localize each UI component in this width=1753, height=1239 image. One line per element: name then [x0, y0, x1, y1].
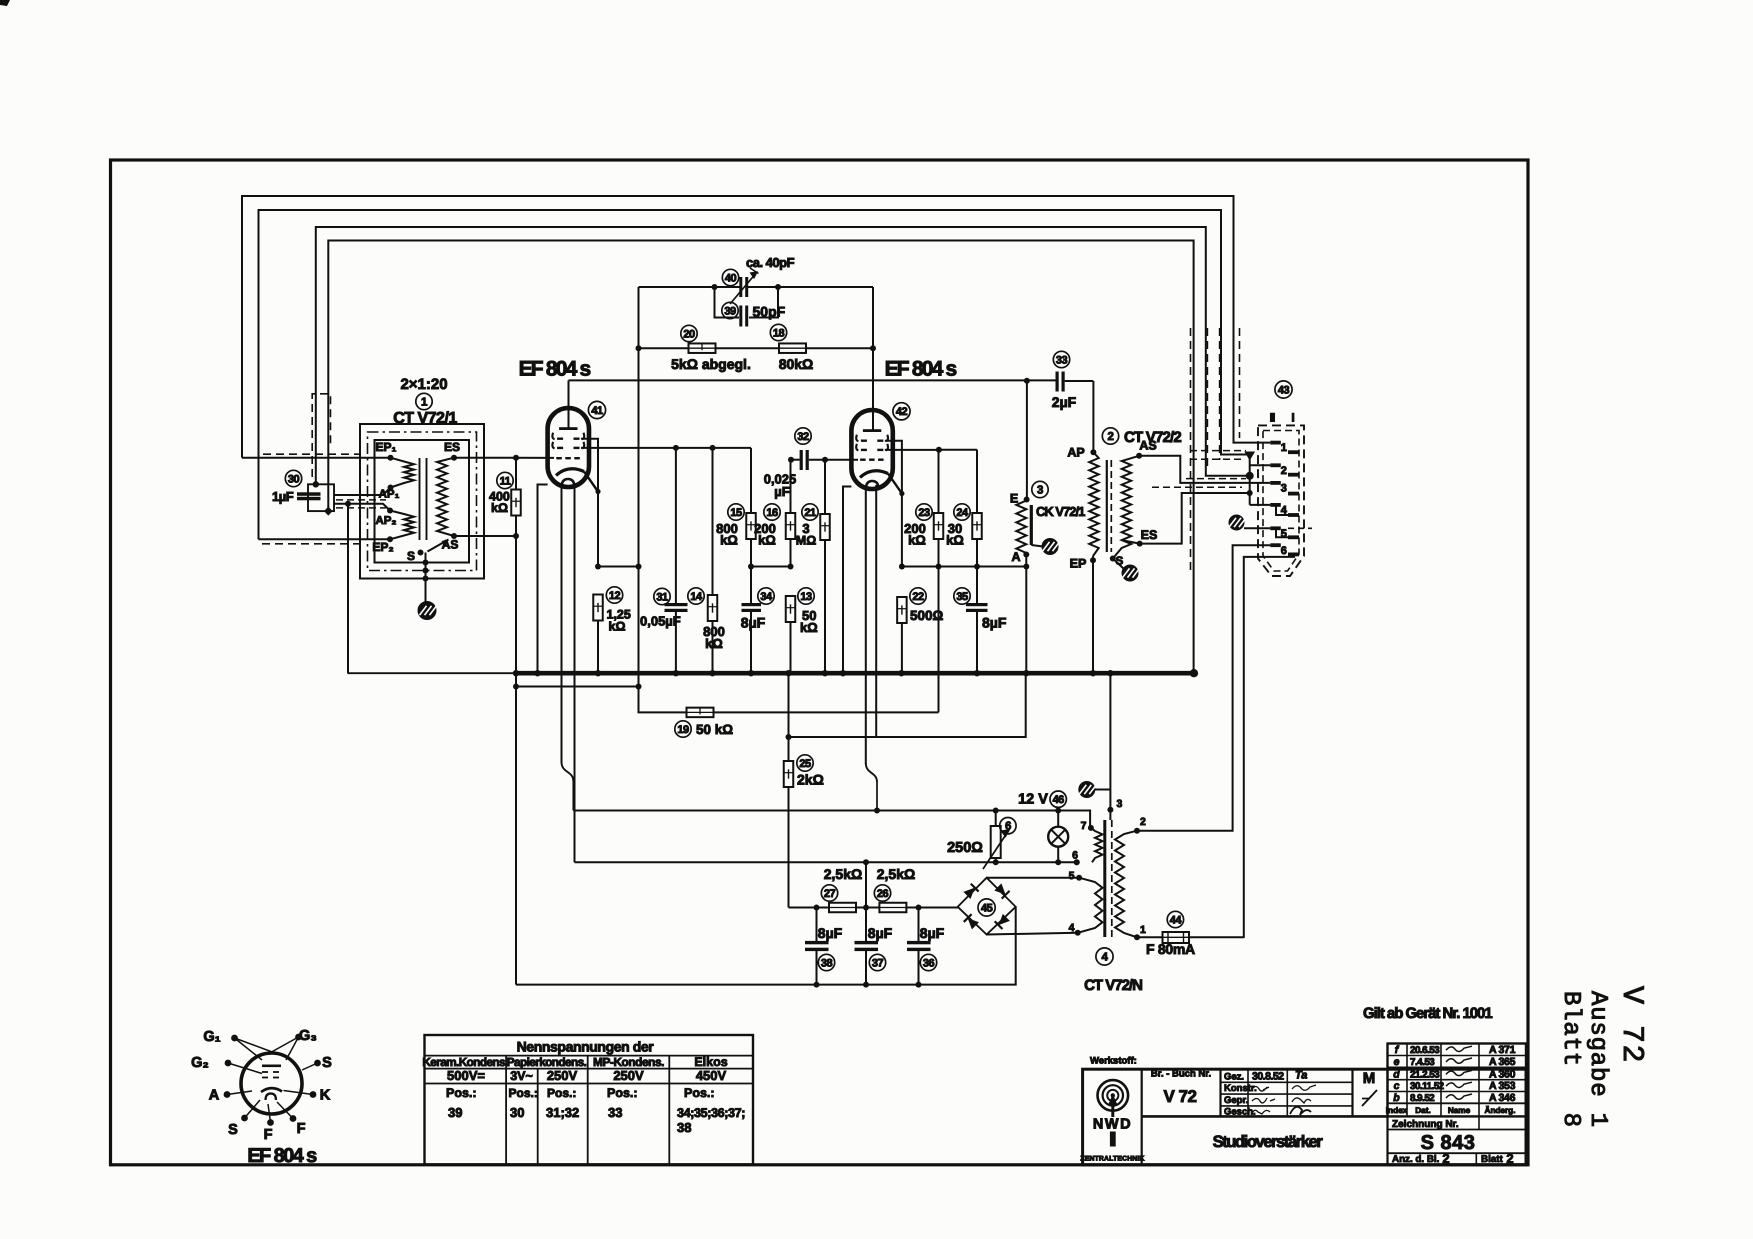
connector pin 6 contact bars: [1270, 543, 1299, 556]
wire trafo1 to fuse: [1137, 936, 1163, 938]
svg-text:kΩ: kΩ: [720, 533, 738, 548]
svg-text:kΩ: kΩ: [800, 620, 818, 635]
node A: [1023, 552, 1029, 558]
wire fuse to pin6 side: [1244, 557, 1295, 938]
label R26: [874, 866, 915, 901]
svg-text:21.2.53: 21.2.53: [1410, 1069, 1440, 1080]
label R21: [796, 504, 818, 548]
node EP2: [387, 536, 393, 542]
label pin number 2: [1281, 465, 1287, 477]
tube V1 cathode arc: [556, 469, 598, 492]
diode bridge bottom-right: [995, 914, 1010, 929]
wire EP1 input: [242, 457, 391, 459]
label A: [1011, 550, 1020, 564]
connector X1 outer dashed outline: [1258, 425, 1304, 576]
ground symbol connector: [1229, 515, 1246, 530]
capacitor C31 0.05uF: [665, 603, 688, 612]
node bus junction x1110.4: [1107, 670, 1113, 676]
rectifier bridge V45 diamond: [958, 878, 1016, 935]
wire link row 2: [751, 566, 791, 568]
svg-text:30.11.52: 30.11.52: [1410, 1081, 1445, 1092]
node row right choke: [1023, 564, 1029, 570]
node heater V2 join: [874, 808, 880, 814]
svg-text:25: 25: [799, 758, 811, 770]
label C37: [868, 925, 893, 971]
node V2 cathode join: [899, 491, 904, 496]
shield dashes around AP wires: [336, 500, 386, 508]
svg-text:EP₁: EP₁: [376, 440, 397, 454]
resistor R14 800k: [708, 595, 718, 621]
wire left return vertical: [515, 673, 517, 984]
wire C35 bottom: [976, 611, 978, 674]
title gez cell lines: [1221, 1069, 1353, 1116]
label C39: [722, 302, 786, 319]
choke core bar: [1030, 505, 1033, 545]
label zeichnung nr: [1392, 1119, 1459, 1130]
wire feedback node to V2 anode: [872, 287, 874, 430]
transformer T2 core: [1107, 460, 1112, 552]
resistor R24 30k: [972, 513, 982, 539]
svg-text:1µF: 1µF: [272, 489, 294, 504]
tube V1 heater leads: [562, 483, 575, 862]
capacitor C33 2uF plates: [1056, 372, 1065, 392]
svg-text:kΩ: kΩ: [758, 533, 776, 548]
svg-text:S: S: [228, 1122, 238, 1138]
svg-text:250V: 250V: [613, 1068, 644, 1083]
shield dashes at pin3 wire: [1152, 479, 1246, 488]
table pos values: [448, 1105, 745, 1135]
svg-text:K: K: [320, 1088, 331, 1104]
svg-text:M: M: [1363, 1070, 1376, 1087]
node return C38: [814, 982, 820, 988]
node ES out: [1137, 541, 1143, 547]
svg-text:5kΩ abgegl.: 5kΩ abgegl.: [671, 356, 751, 372]
connector X1 inner dashed outline: [1263, 431, 1299, 572]
svg-text:38: 38: [821, 957, 833, 969]
node bus junction x843: [840, 670, 846, 676]
wire EP to bus: [1092, 556, 1094, 673]
wire trafo pin3 from bus: [1109, 673, 1111, 820]
svg-text:12 V: 12 V: [1018, 792, 1048, 808]
capacitor C30 label: [272, 470, 302, 504]
svg-text:A 365: A 365: [1489, 1056, 1516, 1068]
resistor R11 400k: [511, 490, 521, 516]
label R12: [606, 587, 631, 634]
node heater ground branch: [786, 734, 792, 740]
table header line: [425, 1055, 754, 1057]
svg-text:15: 15: [730, 507, 742, 519]
resistor R21 3M: [820, 514, 830, 540]
label V72: [1164, 1087, 1197, 1106]
svg-text:8µF: 8µF: [920, 925, 945, 941]
tube V2 cathode arc: [860, 471, 902, 494]
node V1 cathode join: [595, 489, 600, 494]
wire C32 left: [791, 459, 800, 461]
resistor R13 50k: [786, 596, 796, 622]
winding TN heater upper 7-6: [1091, 828, 1103, 862]
svg-text:30: 30: [288, 473, 300, 485]
node bus junction x788.5: [785, 670, 791, 676]
node S out: [1110, 556, 1116, 562]
label EF 804 s second stage: [885, 358, 957, 381]
label pin number 6: [1281, 545, 1287, 557]
sidebar text V 72: [1614, 986, 1648, 1064]
capacitor C38 8uF: [805, 941, 829, 951]
node S shield junction 1: [423, 560, 429, 566]
node input box top: [313, 481, 319, 487]
wire V2 cathode down: [901, 448, 903, 567]
node E: [1024, 497, 1030, 503]
revision row b: [1393, 1092, 1515, 1104]
label pin number 5: [1281, 528, 1287, 540]
svg-text:Papierkondens.: Papierkondens.: [507, 1055, 587, 1069]
svg-text:26: 26: [877, 888, 889, 900]
label C35: [954, 588, 1007, 631]
svg-text:3V~: 3V~: [510, 1069, 533, 1083]
svg-text:13: 13: [800, 591, 812, 603]
wire V2 suppressor to bus: [843, 487, 851, 674]
wire S to ground: [425, 553, 427, 602]
revision table rows: [1388, 1056, 1527, 1104]
svg-text:A: A: [1011, 550, 1020, 564]
table col header 4: [694, 1055, 727, 1069]
svg-text:kΩ: kΩ: [609, 620, 626, 634]
label br buch nr: [1151, 1069, 1211, 1080]
wire bridge top to trafo 5: [987, 877, 1080, 879]
wire C37 column: [865, 862, 867, 984]
node heater return lamp: [1055, 859, 1061, 865]
label bridge 45: [978, 899, 995, 916]
wire R23 feedback down: [938, 567, 940, 713]
tube V2 anode lead: [872, 348, 874, 429]
svg-text:42: 42: [896, 406, 908, 418]
label AP out: [1067, 446, 1084, 460]
label R14: [688, 588, 725, 651]
svg-text:1: 1: [1140, 924, 1146, 936]
svg-text:S: S: [407, 549, 415, 563]
svg-text:Gepr.: Gepr.: [1224, 1095, 1248, 1106]
svg-text:34;35;36;37;: 34;35;36;37;: [677, 1106, 745, 1120]
node bus junction x712.5: [709, 670, 715, 676]
svg-text:kΩ: kΩ: [705, 636, 723, 651]
svg-text:21: 21: [804, 507, 816, 519]
socket heater arc: [266, 1094, 277, 1101]
svg-text:16: 16: [766, 507, 778, 519]
svg-text:6: 6: [1005, 821, 1011, 833]
label anz d bl: [1392, 1151, 1514, 1166]
capacitor C37 8uF: [855, 941, 879, 951]
wire feedback to R19: [639, 567, 687, 713]
resistor R26 2.5k: [879, 903, 906, 913]
label E: [1010, 492, 1018, 506]
wire V1 suppressor to bus: [538, 485, 548, 674]
resistor R27 2.5k: [829, 903, 856, 913]
sidebar text Ausgabe 1: [1584, 991, 1611, 1128]
socket pin A: [224, 1091, 231, 1098]
resistor R15 800k: [746, 513, 756, 539]
node heater return cap column: [863, 859, 869, 865]
wire screen feedback vertical: [638, 348, 640, 566]
ground symbol T1: [418, 602, 437, 620]
node bus junction x825: [822, 670, 828, 676]
label R19: [675, 721, 733, 737]
transformer T1 reference 1: [416, 393, 432, 409]
label M: [1363, 1070, 1376, 1087]
socket anode bar: [262, 1065, 281, 1068]
resistor R12 1.25k cathode V1: [593, 595, 603, 621]
wire lamp bottom: [1057, 847, 1059, 863]
node bus junction x977: [974, 670, 980, 676]
wire ES to pin4 node: [1140, 493, 1248, 544]
svg-text:2: 2: [1281, 465, 1287, 477]
svg-text:AP₂: AP₂: [375, 515, 396, 527]
svg-text:Elkos: Elkos: [694, 1055, 727, 1069]
wire choke feed: [1026, 381, 1028, 500]
wire feedback left drop: [638, 287, 640, 348]
drawing border frame: [111, 160, 1529, 1165]
wire AP2 from connector: [334, 504, 390, 511]
node bus end: [1190, 669, 1198, 677]
table voltages: [447, 1068, 726, 1083]
wire B+ branch down: [788, 673, 790, 761]
svg-text:Gesch.: Gesch.: [1224, 1107, 1256, 1118]
wire R14 top: [712, 448, 714, 595]
svg-text:µF: µF: [774, 484, 789, 499]
wire C34 bottom: [750, 611, 752, 674]
label S 843: [1421, 1132, 1476, 1154]
svg-text:3: 3: [1037, 484, 1043, 496]
table line 2: [425, 1068, 754, 1070]
node ES: [451, 455, 457, 461]
socket labels: [191, 1028, 332, 1143]
svg-text:30.8.52: 30.8.52: [1252, 1070, 1284, 1082]
node R6 bottom: [993, 859, 999, 865]
wire R13 bottom: [790, 622, 792, 673]
svg-text:0,05µF: 0,05µF: [640, 614, 681, 629]
node cathode link right: [636, 564, 642, 570]
node link row 2 right: [788, 564, 794, 570]
connector pin 3 contact bars: [1270, 481, 1299, 496]
label T2 ref 2: [1102, 428, 1118, 444]
svg-text:1: 1: [1281, 442, 1287, 454]
label C32: [764, 428, 811, 499]
winding T1 secondary: [437, 458, 454, 536]
node input box bottom diamond: [324, 507, 333, 516]
node S shield junction 3: [423, 576, 429, 582]
svg-text:Br. - Buch Nr.: Br. - Buch Nr.: [1151, 1069, 1211, 1080]
label R20: [671, 325, 751, 372]
svg-text:Index: Index: [1386, 1106, 1408, 1115]
wire heater ground row: [789, 673, 1026, 737]
capacitor C30 plates: [297, 492, 321, 500]
label S tap: [407, 549, 415, 563]
label R25: [797, 755, 824, 788]
node bus junction x516: [513, 670, 519, 676]
label lamp: [1018, 791, 1066, 808]
capacitor C32 0.025uF plates: [800, 450, 809, 470]
label EF 804 s socket: [247, 1145, 317, 1167]
diode bridge top-left: [963, 884, 978, 899]
node S shield junction 2: [423, 568, 429, 574]
svg-text:b: b: [1393, 1092, 1400, 1104]
svg-text:G₃: G₃: [299, 1028, 317, 1044]
svg-text:23: 23: [918, 507, 930, 519]
resistor R23 200k: [934, 513, 944, 539]
svg-text:450V: 450V: [696, 1068, 727, 1083]
wire R19 to right riser: [714, 711, 939, 713]
svg-text:Blatt: Blatt: [1481, 1154, 1504, 1165]
svg-text:A 353: A 353: [1489, 1080, 1516, 1092]
wire AS to R11: [454, 535, 516, 537]
node row right 977: [974, 564, 980, 570]
resistor R22 500: [897, 597, 907, 623]
node lower branch right: [636, 684, 642, 690]
label C40: [722, 255, 794, 286]
svg-text:ZENTRALTECHNIK: ZENTRALTECHNIK: [1080, 1156, 1144, 1163]
wire V1 cathode down: [597, 446, 599, 567]
wire R24 bottom: [976, 539, 978, 567]
label EP2: [372, 540, 393, 554]
wire C32 right to V2 grid: [809, 459, 858, 461]
svg-text:500V=: 500V=: [447, 1068, 485, 1083]
tube V1 EF804s envelope: [548, 408, 589, 487]
svg-text:Pos.:: Pos.:: [509, 1086, 538, 1100]
label R6: [947, 818, 1016, 857]
connector pin 1 contact bars: [1270, 441, 1299, 454]
shield dash bundle 1: [1190, 328, 1192, 573]
svg-text:37: 37: [872, 957, 884, 969]
socket pin K: [310, 1091, 317, 1098]
wire R16 top: [790, 460, 792, 513]
node trafo 3: [1107, 807, 1113, 813]
svg-text:I: I: [1291, 411, 1294, 425]
label gez rows: [1224, 1071, 1257, 1117]
wire loop A (input EP1 to connector pin1): [242, 196, 1270, 458]
node bus junction x901.4: [898, 670, 904, 676]
node bus junction x598: [595, 670, 601, 676]
svg-text:39: 39: [448, 1105, 462, 1120]
label gez date: [1252, 1070, 1307, 1083]
label EP out: [1070, 557, 1087, 571]
svg-text:34: 34: [760, 591, 773, 603]
node S: [418, 550, 424, 556]
wire V1 g3 row output: [581, 447, 751, 449]
svg-text:30: 30: [510, 1105, 524, 1120]
ground bus main: [516, 671, 1194, 676]
signature scribbles: [1252, 1085, 1316, 1115]
node AP2: [387, 508, 393, 514]
svg-text:12: 12: [609, 590, 621, 602]
node AS out: [1136, 453, 1142, 459]
label TN ref 4: [1096, 948, 1113, 965]
svg-text:8.9.52: 8.9.52: [1410, 1093, 1435, 1104]
label connector ref 43: [1275, 381, 1292, 398]
node V2 plate row: [936, 447, 942, 453]
wire R11 node to bus: [515, 536, 517, 673]
winding T2 primary: [1089, 452, 1099, 556]
switch hook left: [562, 762, 574, 811]
revision row f: [1395, 1044, 1516, 1056]
svg-text:33: 33: [1056, 354, 1068, 366]
shield dash bundle 3: [1219, 328, 1221, 460]
wire pin4 stub: [1250, 504, 1271, 506]
svg-text:ES: ES: [444, 440, 460, 454]
wire V1 anode to C33: [569, 379, 1057, 381]
wire R22 bottom: [901, 623, 903, 673]
svg-text:19: 19: [677, 724, 689, 736]
winding choke CKV72/1: [1016, 501, 1026, 554]
socket pin G2: [225, 1060, 232, 1067]
wire C31 bottom: [675, 611, 677, 674]
node bus junction x751: [748, 670, 754, 676]
table line 3: [425, 1083, 754, 1085]
svg-text:35: 35: [956, 591, 968, 603]
node bus junction x1093: [1090, 670, 1096, 676]
capacitor C39 50pF box: [715, 287, 779, 318]
wire C33 right: [1065, 380, 1094, 382]
svg-text:45: 45: [981, 902, 993, 914]
node plate row R14: [710, 445, 716, 451]
transformer T1 inner shield box: [375, 440, 470, 563]
label ES out: [1141, 528, 1158, 542]
svg-text:c: c: [1394, 1080, 1400, 1092]
svg-text:A 360: A 360: [1489, 1068, 1516, 1080]
svg-text:2: 2: [1108, 431, 1114, 443]
wire fuse right: [1189, 936, 1244, 938]
node anode wire to choke: [1024, 378, 1030, 384]
tube V2 reference 42: [893, 403, 910, 420]
node R6 top: [993, 808, 999, 814]
rheostat R6 250 ohm: [983, 826, 1009, 869]
node EP1: [388, 455, 394, 461]
svg-text:50pF: 50pF: [753, 304, 786, 320]
node cathode link left: [595, 564, 601, 570]
svg-text:d: d: [1393, 1068, 1400, 1080]
svg-text:V 72: V 72: [1614, 986, 1648, 1064]
tube V1 anode lead: [568, 380, 570, 427]
wire lamp top: [1057, 811, 1059, 827]
node lower branch left: [513, 684, 519, 690]
svg-text:F: F: [264, 1127, 273, 1143]
wire R25 to doubler row: [788, 787, 790, 908]
label AS tap: [442, 538, 459, 552]
svg-text:NWD: NWD: [1093, 1117, 1132, 1133]
table col header 1: [422, 1055, 508, 1069]
socket grid dashes: [262, 1072, 279, 1078]
table col header 3: [593, 1055, 664, 1069]
wire ES tap: [1124, 541, 1140, 544]
svg-text:6: 6: [1281, 545, 1287, 557]
svg-text:2: 2: [1442, 1151, 1449, 1166]
table Nennspannungen outer box: [425, 1035, 754, 1165]
socket diagram tube circle: [241, 1053, 302, 1114]
node R15 bottom: [748, 564, 754, 570]
wire bus lower branch: [516, 686, 639, 688]
wire pin5 bar link: [1276, 528, 1288, 537]
svg-text:Pos.:: Pos.:: [547, 1086, 576, 1100]
wire S to ground T2: [1113, 559, 1124, 570]
shield dashes below EP2 wire: [262, 543, 359, 545]
svg-text:A 346: A 346: [1489, 1092, 1516, 1104]
svg-text:31: 31: [656, 591, 668, 603]
capacitor C30 1uF input connector box: [308, 484, 334, 511]
label R18: [770, 324, 813, 372]
svg-text:ES: ES: [1141, 528, 1158, 542]
node trafo 2: [1134, 828, 1140, 834]
transformer TN core: [1105, 820, 1112, 937]
diode bridge bottom-left: [964, 914, 979, 929]
wire cathode row right: [902, 566, 1026, 568]
